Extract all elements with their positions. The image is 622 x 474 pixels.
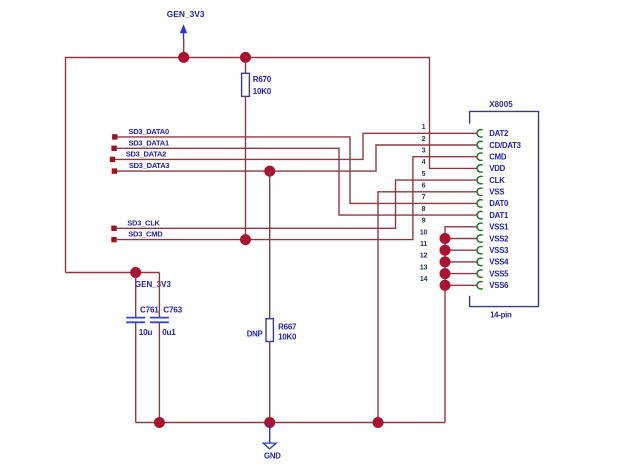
svg-text:VSS1: VSS1	[489, 223, 509, 232]
node junction VSS bus pin 11	[440, 245, 451, 256]
wire pin 12 stub	[445, 261, 477, 263]
svg-text:VSS: VSS	[489, 188, 504, 197]
node junction top rail / R670	[240, 52, 251, 63]
svg-text:C761: C761	[140, 306, 159, 315]
pin 14 VSS6	[420, 274, 509, 290]
svg-text:10K0: 10K0	[253, 87, 272, 96]
pin 13 VSS5	[420, 262, 509, 278]
pin 8 DAT1	[422, 204, 509, 220]
wire net SD3_DATA1	[117, 148, 478, 215]
svg-text:8: 8	[422, 204, 426, 213]
svg-text:4: 4	[422, 157, 426, 166]
svg-text:CD/DAT3: CD/DAT3	[489, 141, 521, 150]
wire R667 top lead	[269, 171, 271, 319]
wire C761 top lead	[135, 273, 137, 318]
node net stub SD3_CMD	[111, 230, 163, 243]
svg-text:14: 14	[420, 274, 428, 283]
pin 6 VSS	[422, 181, 505, 197]
resistor R667 (DNP)	[247, 319, 297, 342]
power symbol GEN_3V3 (top)	[167, 9, 205, 40]
svg-text:9: 9	[422, 216, 426, 225]
svg-text:SD3_CMD: SD3_CMD	[128, 230, 163, 239]
svg-text:SD3_CLK: SD3_CLK	[127, 218, 160, 227]
pin 11 VSS3	[420, 239, 509, 255]
svg-text:GND: GND	[264, 451, 281, 460]
node junction VSS bus pin 12	[440, 256, 451, 267]
svg-text:2: 2	[422, 134, 426, 143]
svg-text:R670: R670	[253, 75, 272, 84]
connector X8005 type 14-pin	[490, 311, 512, 320]
svg-text:10K0: 10K0	[278, 332, 297, 341]
connector X8005 refdes	[489, 100, 513, 109]
wire net SD3_CMD	[117, 157, 478, 240]
wire C761 bottom lead	[135, 323, 137, 423]
node junction SD3_DATA3 / R667	[264, 166, 275, 177]
svg-text:VSS4: VSS4	[489, 258, 509, 267]
node junction ground rail / VSS pin 6	[373, 417, 384, 428]
svg-text:VSS2: VSS2	[489, 234, 509, 243]
wire C763 top lead	[158, 273, 160, 318]
wire net SD3_CLK	[117, 180, 478, 228]
pin 5 CLK	[422, 169, 506, 185]
wire GEN_3V3 stem	[183, 39, 185, 58]
node junction VSS bus pin 10	[440, 233, 451, 244]
pin 3 CMD	[422, 146, 507, 162]
svg-text:3: 3	[422, 146, 426, 155]
svg-text:10u: 10u	[139, 328, 153, 337]
svg-text:12: 12	[420, 251, 428, 260]
svg-text:GEN_3V3: GEN_3V3	[135, 280, 172, 289]
svg-text:0u1: 0u1	[162, 328, 176, 337]
svg-text:VSS6: VSS6	[489, 281, 509, 290]
svg-text:VSS5: VSS5	[489, 269, 509, 278]
node junction VSS bus pin 13	[440, 268, 451, 279]
wire C763 bottom lead	[158, 323, 160, 423]
node net stub SD3_DATA1	[111, 138, 169, 151]
wire GEN_3V3 branch horizontal	[66, 272, 160, 274]
svg-text:VSS3: VSS3	[489, 246, 509, 255]
svg-text:SD3_DATA2: SD3_DATA2	[126, 150, 166, 159]
wire VSS pin 6 to ground rail	[378, 192, 477, 423]
node net stub SD3_DATA2	[110, 150, 166, 163]
svg-text:R667: R667	[278, 323, 297, 332]
wire R670 top lead	[245, 58, 247, 74]
svg-text:1: 1	[422, 122, 426, 131]
svg-text:SD3_DATA0: SD3_DATA0	[129, 127, 169, 136]
resistor R670	[242, 73, 272, 96]
svg-text:10: 10	[420, 227, 428, 236]
svg-text:SD3_DATA1: SD3_DATA1	[129, 138, 169, 147]
wire left vertical	[65, 57, 67, 273]
svg-text:7: 7	[422, 192, 426, 201]
pin 4 VDD	[422, 157, 506, 173]
node junction SD3_CMD / R670	[240, 234, 251, 245]
svg-text:5: 5	[422, 169, 426, 178]
svg-text:GEN_3V3: GEN_3V3	[167, 9, 205, 19]
svg-text:13: 13	[420, 262, 428, 271]
svg-text:SD3_DATA3: SD3_DATA3	[129, 161, 169, 170]
node net stub SD3_CLK	[111, 218, 160, 231]
svg-text:11: 11	[420, 239, 427, 248]
svg-text:DAT2: DAT2	[489, 129, 509, 138]
wire pin 11 stub	[445, 249, 477, 251]
pin 1 DAT2	[422, 122, 509, 138]
svg-text:14-pin: 14-pin	[490, 311, 512, 320]
pin 2 CD/DAT3	[422, 134, 522, 150]
connector X8005 outline	[470, 111, 539, 306]
pin 9 VSS1	[422, 216, 510, 232]
wire VSS1 pin 9 to bus	[445, 227, 477, 239]
svg-text:X8005: X8005	[489, 100, 513, 109]
svg-text:CMD: CMD	[489, 153, 507, 162]
capacitor C761	[126, 306, 159, 337]
node junction ground rail / R667 / GND	[264, 417, 275, 428]
svg-text:CLK: CLK	[489, 176, 505, 185]
node junction GEN_3V3 / C761	[130, 267, 141, 278]
svg-text:DAT1: DAT1	[489, 211, 509, 220]
wire R667 bottom lead	[269, 342, 271, 423]
wire VSS bus vertical	[444, 239, 446, 423]
pin 10 VSS2	[420, 227, 509, 243]
node junction ground rail / C763	[154, 417, 165, 428]
wire 3V3 rail to VDD pin 4	[430, 57, 478, 169]
node junction top rail / GEN_3V3	[178, 52, 189, 63]
ground GND	[263, 423, 281, 460]
wire pin 13 stub	[445, 273, 477, 275]
node net stub SD3_DATA3	[112, 161, 170, 174]
node net stub SD3_DATA0	[112, 127, 169, 140]
svg-text:DAT0: DAT0	[489, 199, 509, 208]
pin 7 DAT0	[422, 192, 509, 208]
capacitor C763	[150, 306, 183, 337]
wire top 3V3 rail	[66, 57, 430, 59]
wire pin 10 stub	[445, 238, 477, 240]
pin 12 VSS4	[420, 251, 509, 267]
svg-text:6: 6	[422, 181, 426, 190]
svg-text:DNP: DNP	[247, 329, 263, 338]
power label GEN_3V3 (decoupling)	[135, 280, 172, 289]
wire net SD3_DATA3	[117, 145, 478, 171]
wire net SD3_DATA2	[115, 133, 478, 159]
wire net SD3_DATA0	[117, 137, 478, 204]
wire R670 bottom lead to SD3_CMD	[245, 96, 247, 239]
svg-text:C763: C763	[163, 306, 182, 315]
svg-text:VDD: VDD	[489, 164, 505, 173]
wire pin 14 stub	[445, 284, 477, 286]
node junction VSS bus pin 14	[440, 280, 451, 291]
wire bottom ground rail	[136, 422, 445, 424]
